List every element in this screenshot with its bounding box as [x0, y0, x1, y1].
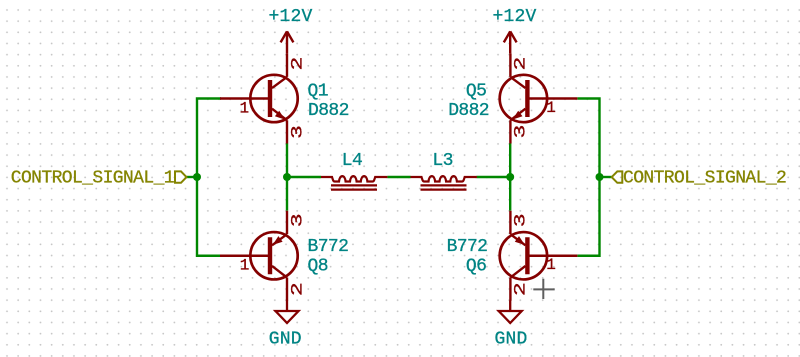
svg-text:1: 1 [240, 257, 250, 275]
wire: right vertical bus with base stubs [578, 99, 600, 256]
wire: Q5 emitter to Q6 (right center vertical) [509, 143, 511, 210]
svg-text:Q6: Q6 [466, 256, 486, 276]
wire: label 2 stub [600, 176, 612, 178]
svg-text:CONTROL_SIGNAL_1: CONTROL_SIGNAL_1 [11, 169, 174, 189]
ground symbol (left) [276, 301, 299, 324]
svg-text:B772: B772 [447, 237, 488, 257]
svg-text:1: 1 [546, 99, 556, 117]
junction: right label node [596, 173, 604, 181]
transistor Q6 [500, 211, 578, 301]
svg-text:B772: B772 [308, 237, 349, 257]
svg-text:Q5: Q5 [466, 82, 486, 102]
svg-text:1: 1 [546, 256, 556, 274]
global label CONTROL_SIGNAL_1 [175, 171, 187, 182]
inductor L4 [321, 176, 387, 190]
svg-text:3: 3 [288, 125, 306, 139]
wire: L4 to L3 [387, 176, 410, 178]
svg-text:Q8: Q8 [308, 256, 328, 276]
svg-text:D882: D882 [448, 101, 489, 121]
svg-text:1: 1 [239, 100, 249, 118]
svg-text:L4: L4 [342, 151, 362, 171]
power +12V (left) [281, 31, 294, 53]
svg-text:GND: GND [494, 330, 527, 350]
junction: right bridge node [506, 173, 514, 181]
transistor Q5 [500, 54, 578, 144]
svg-text:2: 2 [511, 282, 529, 296]
junction: left label node [193, 173, 201, 181]
global label CONTROL_SIGNAL_2 [612, 171, 623, 182]
junction: left bridge node [283, 173, 291, 181]
svg-text:3: 3 [511, 125, 529, 139]
wire: left vertical bus with base stubs [197, 99, 221, 256]
ground symbol (right) [499, 301, 522, 324]
svg-text:+12V: +12V [492, 7, 536, 27]
transistor Q8 [220, 211, 298, 301]
svg-text:Q1: Q1 [308, 82, 328, 102]
svg-text:L3: L3 [432, 151, 452, 171]
svg-text:CONTROL_SIGNAL_2: CONTROL_SIGNAL_2 [623, 169, 786, 189]
svg-text:2: 2 [288, 57, 306, 71]
svg-text:2: 2 [511, 57, 529, 71]
wire: Q1 emitter to Q8 (left center vertical) [286, 143, 288, 210]
power +12V (right) [504, 31, 517, 53]
svg-text:+12V: +12V [268, 7, 312, 27]
mouse crosshair cursor [533, 279, 554, 299]
transistor Q1 [220, 54, 298, 144]
svg-text:3: 3 [288, 213, 306, 227]
inductor L3 [411, 176, 477, 190]
svg-text:3: 3 [511, 213, 529, 227]
wire: left junction to L4 [287, 176, 321, 178]
wire: label 1 stub [187, 176, 198, 178]
svg-text:2: 2 [288, 282, 306, 296]
svg-text:GND: GND [269, 330, 302, 350]
wire: L3 to right junction [477, 176, 511, 178]
svg-text:D882: D882 [308, 101, 349, 121]
